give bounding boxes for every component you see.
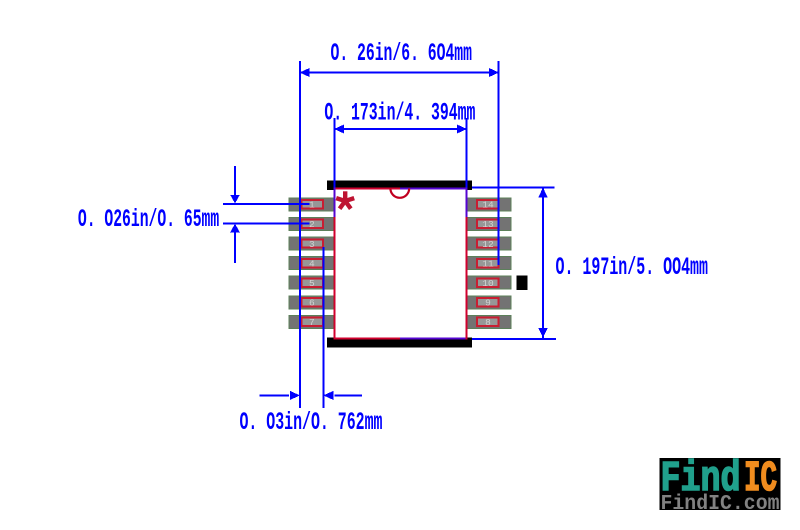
body outline top edge right (overlap) — [400, 187, 467, 189]
pad P3 — [289, 237, 334, 250]
dim 0.173in extension line left — [334, 118, 336, 187]
top body bar — [327, 181, 472, 190]
dim 0.26in label — [331, 39, 473, 68]
dim 0.026in label — [78, 205, 219, 234]
dim 0.03in left arrow line — [260, 391, 301, 400]
dim 0.03in extension line — [323, 247, 325, 408]
body outline bottom edge right (overlap) — [400, 337, 467, 339]
pin window 1 — [302, 200, 324, 211]
svg-text:3: 3 — [309, 239, 315, 250]
logo background — [660, 458, 781, 510]
svg-text:8: 8 — [485, 317, 491, 328]
dim 0.197in label — [556, 253, 709, 282]
pin1 notch semicircle — [390, 188, 409, 197]
svg-text:5: 5 — [309, 278, 315, 289]
body outline right edge — [466, 187, 468, 339]
svg-text:O. 26in/6. 6O4mm: O. 26in/6. 6O4mm — [331, 39, 473, 68]
pad P8 — [467, 315, 512, 328]
dim 0.197in line — [538, 188, 548, 339]
svg-text:FindIC.com: FindIC.com — [661, 493, 780, 516]
pin1 asterisk — [336, 191, 354, 208]
svg-text:10: 10 — [482, 278, 494, 289]
dim 0.03in right arrow line — [323, 391, 362, 400]
bottom body bar — [327, 337, 472, 347]
pin window 10 — [477, 278, 499, 289]
pin window 2 — [302, 219, 324, 230]
pad P6 — [289, 296, 334, 309]
pad P4 — [289, 257, 334, 270]
logo IC text — [744, 454, 777, 503]
pad P2 — [289, 217, 334, 230]
pad P10 — [467, 276, 512, 289]
logo FindIC.com text — [661, 493, 780, 516]
marker square — [517, 275, 528, 290]
svg-text:7: 7 — [309, 317, 315, 328]
body outline top edge — [334, 187, 400, 189]
svg-text:O. O26in/O. 65mm: O. O26in/O. 65mm — [78, 205, 219, 234]
svg-text:1: 1 — [309, 200, 315, 211]
pin window 9 — [477, 298, 499, 309]
svg-text:9: 9 — [485, 298, 491, 309]
svg-text:6: 6 — [309, 298, 315, 309]
dim 0.197in top extent line — [472, 187, 555, 189]
dim 0.173in extension line right — [466, 118, 468, 187]
pin window 5 — [302, 278, 324, 289]
svg-text:O. 197in/5. OO4mm: O. 197in/5. OO4mm — [556, 253, 709, 282]
pad P9 — [467, 296, 512, 309]
pin window 3 — [302, 239, 324, 250]
dim 0.197in bottom extent line — [472, 338, 556, 340]
svg-text:O. 173in/4. 394mm: O. 173in/4. 394mm — [324, 99, 475, 128]
pin window 8 — [477, 317, 499, 328]
pin window 12 — [477, 239, 499, 250]
pin window 6 — [302, 298, 324, 309]
dim 0.26in extension line right — [498, 61, 500, 265]
svg-text:O. O3in/O. 762mm: O. O3in/O. 762mm — [240, 408, 383, 437]
svg-text:11: 11 — [482, 258, 494, 269]
dim 0.026in upper line — [223, 203, 309, 205]
logo Find text — [661, 454, 741, 503]
pin window 4 — [302, 258, 324, 269]
body outline bottom edge — [334, 337, 400, 339]
body outline left edge — [334, 187, 336, 339]
pin window 11 — [477, 258, 499, 269]
pad P11 — [467, 257, 512, 270]
dim 0.026in arrow stem — [230, 166, 240, 263]
svg-text:2: 2 — [309, 219, 315, 230]
pin window 7 — [302, 317, 324, 328]
pad P7 — [289, 315, 334, 328]
dim 0.03in label — [240, 408, 383, 437]
dim 0.173in label — [324, 99, 475, 128]
dim 0.26in line — [300, 68, 500, 77]
pad P12 — [467, 237, 512, 250]
dim 0.173in line — [334, 125, 467, 134]
svg-text:12: 12 — [482, 239, 494, 250]
pin window 14 — [477, 200, 499, 211]
pad P1 — [289, 198, 334, 211]
dim 0.26in extension line left — [299, 61, 301, 408]
svg-text:14: 14 — [482, 200, 494, 211]
pad P13 — [467, 217, 512, 230]
pad P14 — [467, 198, 512, 211]
dim 0.026in lower line — [223, 222, 309, 224]
pad P5 — [289, 276, 334, 289]
svg-text:13: 13 — [482, 219, 494, 230]
pin window 13 — [477, 219, 499, 230]
svg-text:4: 4 — [309, 258, 315, 269]
